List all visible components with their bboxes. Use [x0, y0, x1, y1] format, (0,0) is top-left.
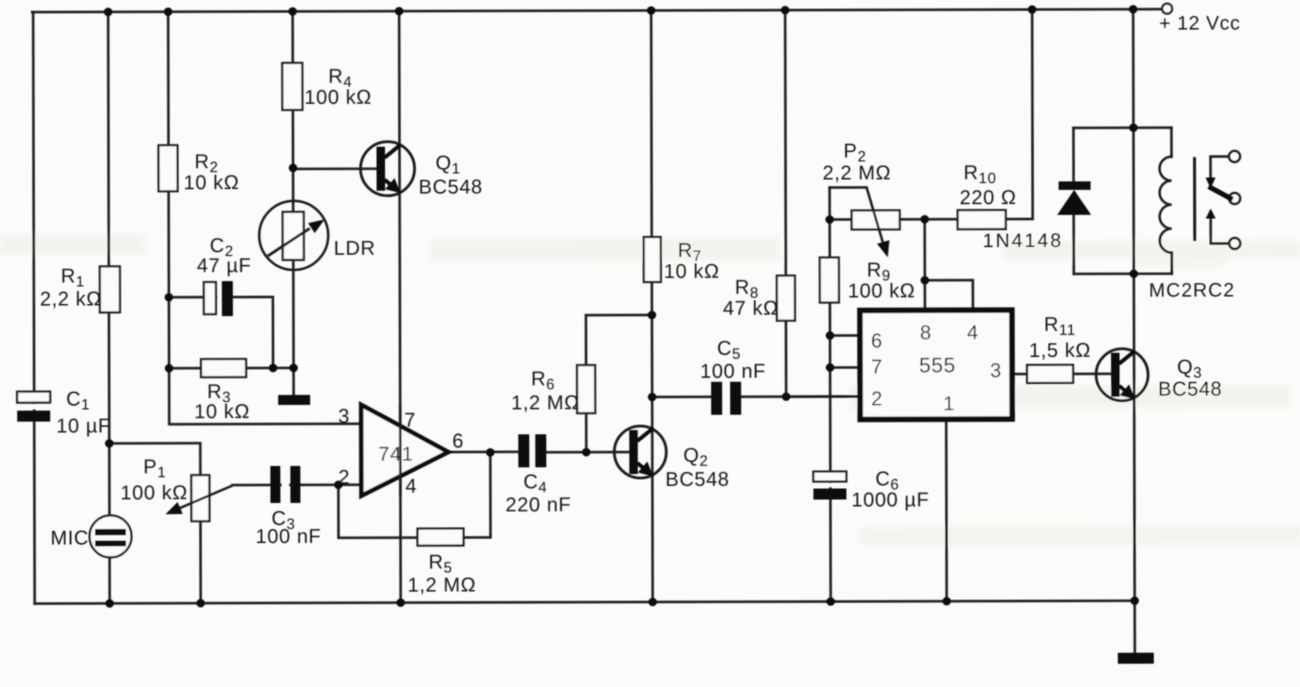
svg-text:1000 µF: 1000 µF — [851, 489, 929, 511]
svg-text:741: 741 — [378, 444, 413, 466]
svg-text:47 kΩ: 47 kΩ — [723, 298, 779, 320]
svg-text:6: 6 — [452, 430, 464, 452]
svg-text:220 nF: 220 nF — [505, 494, 571, 516]
svg-text:47 µF: 47 µF — [197, 255, 252, 277]
svg-text:10 µF: 10 µF — [56, 415, 111, 437]
svg-text:4: 4 — [967, 322, 979, 344]
svg-text:MC2RC2: MC2RC2 — [1149, 279, 1235, 301]
svg-text:3: 3 — [990, 360, 1002, 382]
svg-text:MIC: MIC — [50, 527, 89, 549]
svg-text:10 kΩ: 10 kΩ — [664, 261, 720, 283]
svg-text:LDR: LDR — [334, 238, 376, 260]
svg-text:7: 7 — [871, 356, 883, 378]
svg-text:BC548: BC548 — [665, 469, 729, 491]
svg-text:100 nF: 100 nF — [700, 361, 766, 383]
svg-text:100 kΩ: 100 kΩ — [304, 87, 372, 109]
svg-text:100 nF: 100 nF — [255, 526, 321, 548]
svg-text:2: 2 — [338, 467, 350, 489]
svg-text:2,2 MΩ: 2,2 MΩ — [823, 162, 892, 184]
svg-text:BC548: BC548 — [419, 176, 483, 198]
svg-text:3: 3 — [338, 406, 350, 428]
svg-text:4: 4 — [405, 476, 417, 498]
svg-text:2: 2 — [871, 388, 883, 410]
svg-text:8: 8 — [920, 322, 932, 344]
svg-text:100 kΩ: 100 kΩ — [120, 482, 188, 504]
svg-text:555: 555 — [919, 354, 956, 377]
svg-text:1,2 MΩ: 1,2 MΩ — [408, 574, 477, 596]
svg-text:2,2 kΩ: 2,2 kΩ — [40, 288, 102, 310]
svg-text:6: 6 — [871, 330, 883, 352]
svg-text:BC548: BC548 — [1158, 379, 1222, 401]
svg-text:10 kΩ: 10 kΩ — [184, 172, 240, 194]
svg-text:7: 7 — [404, 410, 416, 432]
svg-text:1,2 MΩ: 1,2 MΩ — [511, 392, 580, 414]
svg-text:1N4148: 1N4148 — [983, 230, 1063, 252]
svg-text:10 kΩ: 10 kΩ — [194, 401, 250, 423]
svg-text:1,5 kΩ: 1,5 kΩ — [1029, 340, 1091, 362]
svg-text:220 Ω: 220 Ω — [960, 187, 1017, 209]
svg-text:1: 1 — [943, 393, 955, 415]
svg-text:100 kΩ: 100 kΩ — [848, 280, 916, 302]
svg-text:+ 12 Vcc: + 12 Vcc — [1159, 12, 1240, 34]
